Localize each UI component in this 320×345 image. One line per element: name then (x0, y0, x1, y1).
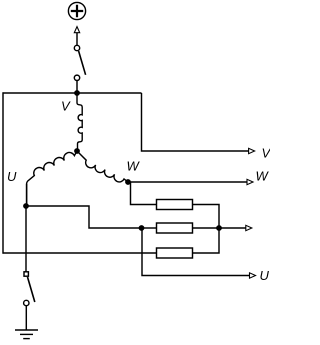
label U (winding) (7, 169, 17, 184)
terminal arrow (row 2) (246, 225, 252, 230)
wire: right rail down (193, 228, 220, 253)
wire: arrow stem (76, 33, 78, 45)
wire: row2 left junction down to U output (142, 228, 250, 276)
connector arrow toward supply (74, 27, 79, 33)
wire: W output (128, 181, 247, 183)
svg-text:U: U (260, 268, 270, 283)
wire: V output feed (142, 93, 249, 151)
node: row 2 left junction (139, 225, 145, 231)
winding U (27, 151, 77, 206)
switch S1 (open) (74, 45, 85, 80)
wire: earth branch (25, 206, 27, 272)
terminal arrow V (249, 148, 255, 153)
label W (winding) (127, 159, 141, 174)
svg-text:W: W (127, 159, 141, 174)
wire: switch to top bus (76, 81, 78, 94)
terminal arrow U (250, 273, 256, 278)
switch S2 (open, to earth) (24, 272, 35, 306)
terminal arrow W (247, 179, 253, 184)
node: star point (74, 148, 80, 154)
wire: top bus (3, 92, 142, 94)
winding V (77, 93, 82, 151)
label V (winding) (61, 99, 71, 114)
svg-text:W: W (256, 169, 270, 184)
winding W (77, 151, 128, 182)
wire: winding U to node U (26, 184, 28, 206)
svg-text:V: V (262, 146, 271, 161)
label V (output) (262, 146, 272, 161)
wire: row 2 left lead (142, 227, 157, 229)
svg-text:V: V (61, 99, 71, 114)
resistor R1 (157, 200, 193, 210)
node W (125, 179, 131, 185)
node: row 2 right junction (216, 225, 222, 231)
ground (15, 330, 38, 339)
wire: switch to ground (25, 306, 27, 330)
label W (output) (256, 169, 270, 184)
node: top junction (74, 90, 80, 96)
wire: W node down to R1 (131, 182, 157, 205)
node U (23, 203, 29, 209)
wire: bottom bus (3, 252, 157, 254)
wire: U jog to row 2 (26, 206, 142, 228)
label U (output) (260, 268, 270, 283)
wire: R1 right to right rail (193, 205, 220, 229)
supply terminal (+) (68, 2, 85, 19)
resistor R2 (157, 223, 193, 233)
resistor R3 (157, 248, 193, 258)
wire: left border (2, 92, 4, 253)
svg-text:U: U (7, 169, 17, 184)
wire: row 2 right lead (193, 227, 246, 229)
